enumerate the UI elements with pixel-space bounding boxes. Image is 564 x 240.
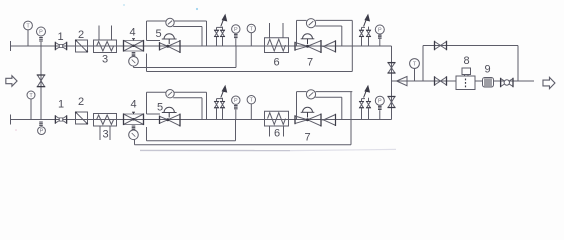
svg-text:P: P: [39, 30, 43, 36]
svg-text:4: 4: [129, 27, 135, 39]
svg-text:1: 1: [58, 99, 64, 111]
svg-text:8: 8: [463, 55, 469, 67]
svg-text:P: P: [40, 129, 44, 135]
svg-text:6: 6: [274, 128, 280, 140]
svg-text:7: 7: [307, 57, 313, 69]
svg-text:P: P: [234, 98, 238, 104]
svg-text:9: 9: [484, 64, 490, 76]
svg-text:5: 5: [155, 28, 161, 40]
svg-text:P: P: [234, 27, 238, 33]
svg-text:2: 2: [78, 29, 84, 41]
svg-text:2: 2: [78, 96, 84, 108]
svg-text:7: 7: [304, 132, 310, 144]
svg-text:P: P: [378, 99, 382, 105]
svg-text:P: P: [378, 28, 382, 34]
svg-text:3: 3: [102, 54, 108, 66]
svg-text:3: 3: [102, 129, 108, 141]
svg-text:5: 5: [157, 102, 163, 114]
svg-text:1: 1: [57, 31, 63, 43]
svg-text:6: 6: [273, 57, 279, 69]
svg-text:4: 4: [130, 99, 136, 111]
